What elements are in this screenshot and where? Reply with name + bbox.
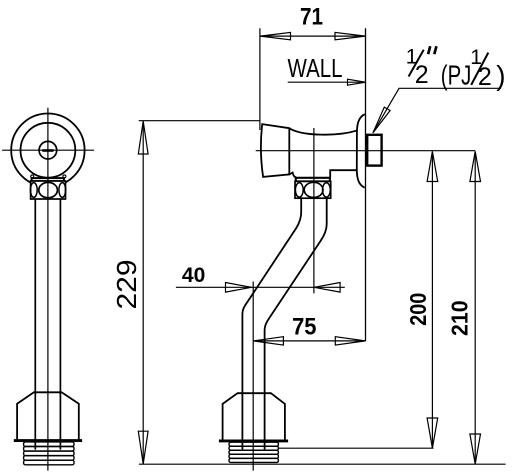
body bottom edge left of outlet bbox=[289, 173, 296, 178]
nut ear right bbox=[63, 175, 66, 178]
collar (side) bbox=[296, 178, 330, 182]
fitting flange bar (front) bbox=[14, 439, 82, 442]
dim 200 down arrow bbox=[427, 418, 438, 448]
top extension line bbox=[139, 120, 261, 122]
screw circle (front) bbox=[39, 141, 57, 159]
nut right ellipse bbox=[59, 183, 66, 198]
dim 229 up arrow bbox=[138, 121, 148, 154]
thread band 1 (front) bbox=[24, 442, 74, 447]
dim 229 line bbox=[142, 122, 144, 464]
lower pipe centerline bbox=[252, 282, 254, 471]
dim 40 line bbox=[176, 286, 345, 288]
S-pipe right edge bbox=[265, 198, 327, 449]
nut body (front) bbox=[31, 181, 66, 199]
dim 210 down arrow bbox=[470, 434, 481, 464]
svg-text:2: 2 bbox=[415, 61, 429, 89]
label inch mark stroke 1 bbox=[428, 46, 430, 54]
wall flange bbox=[357, 114, 365, 188]
thread band 3 (side) bbox=[229, 450, 278, 454]
dim 200 line bbox=[431, 152, 433, 448]
thread band 1 (side) bbox=[229, 442, 278, 446]
dim 71 line bbox=[260, 35, 366, 37]
wall line bbox=[365, 28, 367, 341]
nut left ellipse bbox=[30, 183, 37, 198]
valve horizontal centerline bbox=[256, 150, 476, 152]
svg-text:71: 71 bbox=[300, 4, 323, 31]
nut collar (front) bbox=[32, 178, 64, 181]
nut ear left bbox=[31, 175, 34, 178]
label fraction 2 slash bbox=[471, 53, 488, 85]
thread band 4 (front) bbox=[24, 456, 74, 461]
dim 75 line bbox=[253, 340, 365, 342]
nut left ellipse (side) bbox=[295, 183, 303, 197]
dim 40 right-pointing arrow bbox=[226, 283, 252, 293]
WALL leader arrow bbox=[348, 79, 366, 85]
dim 75 left arrow bbox=[253, 337, 283, 345]
inlet fitting body (side) bbox=[223, 393, 285, 439]
thread band 2 (front) bbox=[24, 447, 74, 452]
screw slot bbox=[42, 149, 53, 152]
nut center ellipse bbox=[39, 182, 58, 197]
label inch mark stroke 2 bbox=[434, 46, 436, 54]
pipe right edge (front) bbox=[59, 199, 61, 450]
dim 210 line bbox=[474, 152, 476, 464]
dim 200 baseline bbox=[278, 447, 434, 449]
upper pipe centerline bbox=[313, 128, 315, 293]
svg-text:229: 229 bbox=[111, 260, 142, 310]
bottom baseline bbox=[139, 463, 506, 465]
nut right ellipse (side) bbox=[323, 183, 331, 197]
thread band 5 (front) bbox=[24, 460, 74, 465]
label leader line bbox=[374, 88, 501, 131]
thread band 4 (side) bbox=[229, 454, 278, 458]
thread band 3 (front) bbox=[24, 451, 74, 456]
fitting flange bar (side) bbox=[219, 439, 288, 442]
S-pipe left edge bbox=[242, 198, 301, 449]
dim 75 right arrow bbox=[335, 337, 365, 345]
svg-text:200: 200 bbox=[405, 293, 431, 326]
dim 71 left arrow bbox=[260, 32, 290, 39]
nut center ellipse (side) bbox=[304, 182, 323, 197]
WALL leader line bbox=[288, 81, 362, 83]
dim 71 right arrow bbox=[335, 32, 365, 39]
extension line left (valve face) bbox=[259, 28, 261, 130]
thread band 5 (side) bbox=[229, 458, 278, 462]
body cone top edge bbox=[289, 128, 357, 134]
body bottom edge right of outlet bbox=[330, 170, 357, 177]
svg-text:75: 75 bbox=[292, 314, 316, 341]
svg-text:): ) bbox=[496, 60, 505, 91]
nut body (side) bbox=[295, 181, 331, 198]
label leader arrow bbox=[373, 107, 390, 133]
dim 229 down arrow bbox=[138, 431, 148, 464]
svg-text:210: 210 bbox=[446, 300, 472, 336]
thread band 2 (side) bbox=[229, 446, 278, 450]
threaded nipple bbox=[367, 135, 381, 166]
svg-text:(PJ: (PJ bbox=[441, 60, 472, 91]
inlet fitting body (front) bbox=[17, 392, 79, 439]
knob (push button) bbox=[261, 124, 289, 177]
svg-text:WALL: WALL bbox=[288, 55, 343, 83]
front view outer circle (valve head) bbox=[11, 114, 84, 187]
svg-text:2: 2 bbox=[478, 63, 492, 91]
svg-text:40: 40 bbox=[182, 264, 205, 287]
dim 210 up arrow bbox=[470, 151, 481, 181]
label fraction slash bbox=[409, 50, 424, 77]
front view inner circle bbox=[21, 123, 76, 178]
pipe left edge (front) bbox=[34, 199, 36, 450]
front view horizontal centerline bbox=[2, 149, 94, 151]
dim 200 up arrow bbox=[427, 151, 438, 181]
front view vertical centerline bbox=[47, 108, 49, 471]
dim 40 left-pointing arrow bbox=[314, 283, 340, 293]
